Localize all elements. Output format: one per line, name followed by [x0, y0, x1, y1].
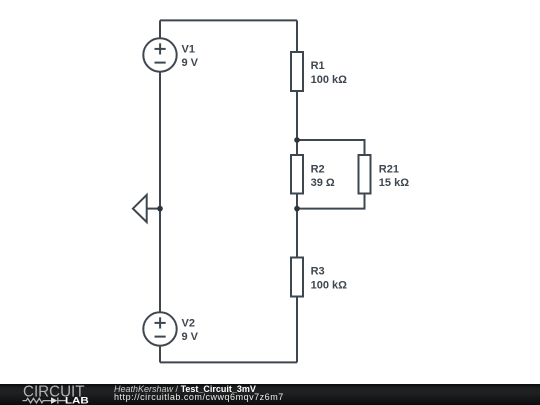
node ground junction [157, 206, 163, 212]
node B [294, 206, 300, 212]
svg-text:9 V: 9 V [182, 331, 199, 343]
voltage source V1 [143, 38, 176, 71]
svg-text:100 kΩ: 100 kΩ [311, 74, 348, 86]
svg-text:39 Ω: 39 Ω [311, 177, 335, 189]
wire triangle stub [147, 208, 160, 210]
resistor R3 [291, 258, 303, 297]
resistor R2 [291, 155, 303, 194]
svg-text:R21: R21 [379, 164, 399, 176]
svg-text:V2: V2 [182, 318, 195, 330]
node A [294, 137, 300, 143]
CircuitLab logo [0, 384, 110, 405]
svg-text:LAB: LAB [65, 395, 89, 405]
wire left rail middle [159, 72, 161, 313]
wire node A to R21 branch [297, 140, 365, 155]
wire bottom [160, 361, 297, 363]
wire R3 to bottom [296, 297, 298, 363]
wire top [160, 19, 297, 21]
svg-text:R1: R1 [311, 60, 325, 72]
resistor R1 [291, 52, 303, 91]
svg-text:9 V: 9 V [182, 57, 199, 69]
svg-text:R3: R3 [311, 266, 325, 278]
wire R2 to node B [296, 194, 298, 258]
voltage source V2 [143, 312, 176, 345]
wire right rail top [296, 20, 298, 52]
wire left rail upper [159, 20, 161, 38]
svg-text:V1: V1 [182, 44, 195, 56]
wire R21 to node B [297, 194, 365, 209]
svg-text:15 kΩ: 15 kΩ [379, 177, 409, 189]
wire R1 to node A [296, 91, 298, 155]
svg-text:R2: R2 [311, 164, 325, 176]
ground [133, 195, 147, 222]
wire left rail lower [159, 346, 161, 363]
svg-text:100 kΩ: 100 kΩ [311, 279, 348, 291]
resistor R21 [359, 155, 371, 194]
